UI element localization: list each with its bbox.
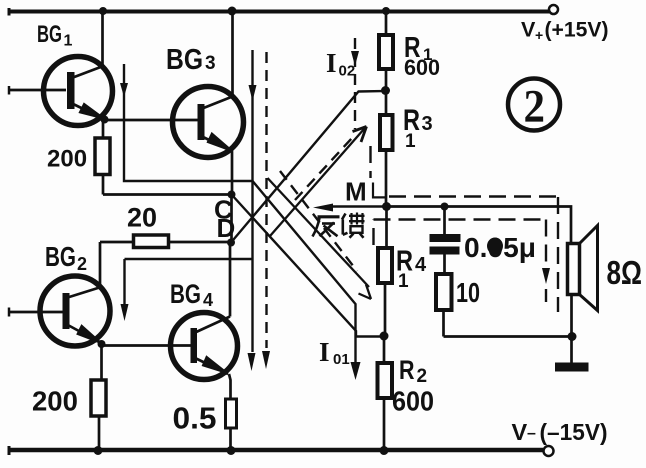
svg-text:I: I: [319, 337, 330, 367]
svg-text:1: 1: [64, 33, 73, 50]
svg-text:200: 200: [47, 146, 87, 173]
svg-text:BG: BG: [37, 21, 62, 48]
svg-text:2: 2: [417, 366, 428, 387]
svg-text:BG: BG: [170, 279, 201, 309]
svg-text:1: 1: [405, 131, 416, 152]
svg-text:600: 600: [392, 386, 434, 417]
svg-text:D: D: [217, 213, 236, 243]
svg-text:20: 20: [127, 203, 157, 233]
svg-text:4: 4: [415, 254, 427, 276]
svg-text:V: V: [521, 18, 536, 42]
svg-text:R: R: [399, 355, 415, 385]
svg-text:(+15V): (+15V): [545, 18, 609, 42]
svg-text:1: 1: [398, 271, 409, 292]
svg-text:M: M: [345, 177, 367, 207]
svg-text:I: I: [326, 48, 337, 78]
svg-text:0.5: 0.5: [173, 401, 217, 436]
svg-text:600: 600: [404, 55, 440, 80]
svg-text:(–15V): (–15V): [540, 419, 608, 445]
svg-text:200: 200: [32, 386, 78, 417]
svg-text:+: +: [535, 27, 543, 43]
svg-text:V: V: [512, 419, 528, 445]
svg-text:8Ω: 8Ω: [607, 254, 643, 291]
svg-text:02: 02: [339, 63, 356, 80]
svg-text:BG: BG: [166, 44, 203, 76]
svg-text:BG: BG: [45, 241, 76, 272]
svg-text:01: 01: [333, 351, 350, 368]
svg-text:–: –: [527, 425, 536, 442]
svg-text:10: 10: [456, 277, 480, 308]
svg-text:2: 2: [524, 81, 546, 133]
svg-text:3: 3: [205, 53, 216, 74]
svg-text:2: 2: [77, 254, 87, 274]
svg-text:3: 3: [422, 113, 433, 135]
svg-text:4: 4: [203, 290, 213, 310]
